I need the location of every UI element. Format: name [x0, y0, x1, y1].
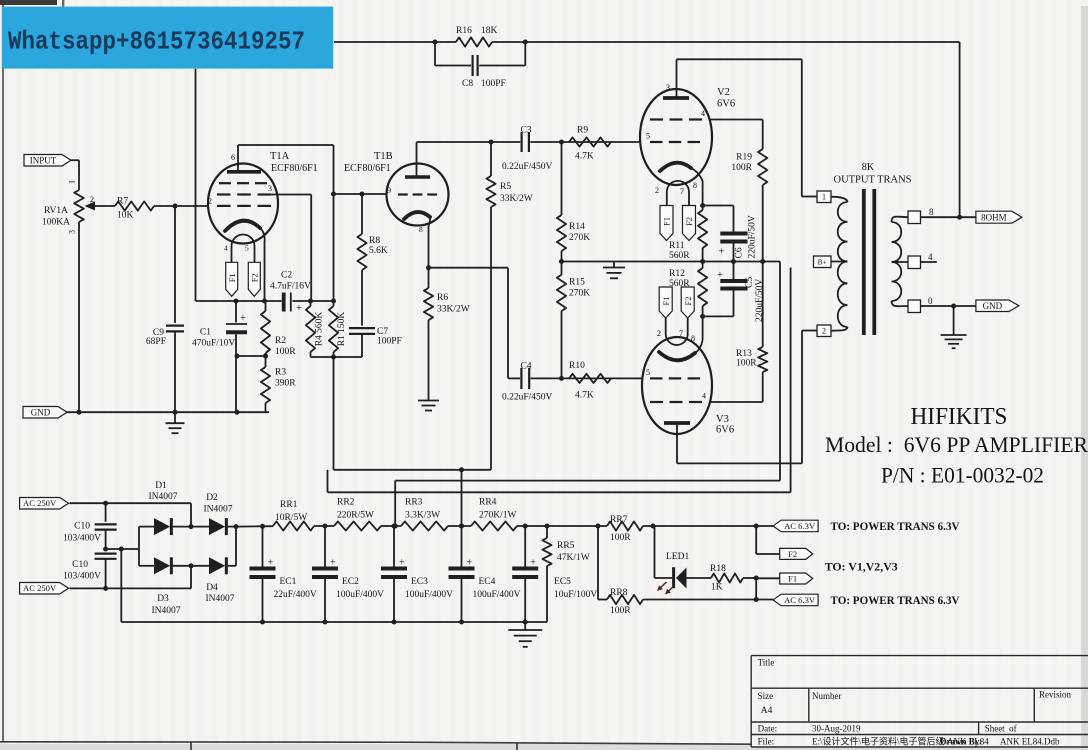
svg-text:8: 8 — [691, 334, 695, 343]
svg-text:0.22uF/450V: 0.22uF/450V — [502, 162, 553, 172]
svg-text:T1B: T1B — [374, 151, 393, 162]
svg-text:R19: R19 — [736, 153, 752, 163]
svg-text:C10: C10 — [74, 522, 90, 532]
svg-text:470uF/10V: 470uF/10V — [192, 339, 235, 349]
svg-text:Title: Title — [758, 658, 775, 668]
svg-text:3: 3 — [268, 184, 272, 193]
svg-text:9: 9 — [387, 186, 391, 195]
svg-text:4: 4 — [224, 244, 228, 253]
svg-text:270K/1W: 270K/1W — [479, 511, 517, 521]
svg-text:8OHM: 8OHM — [981, 212, 1007, 222]
svg-text:F1: F1 — [662, 217, 672, 226]
svg-text:R18: R18 — [710, 564, 726, 574]
svg-text:560R: 560R — [669, 251, 690, 261]
svg-text:File:: File: — [758, 737, 775, 747]
svg-text:100R: 100R — [610, 533, 631, 543]
svg-text:C1: C1 — [200, 328, 211, 338]
svg-text:8: 8 — [929, 207, 934, 217]
svg-text:100R: 100R — [736, 359, 757, 369]
svg-text:47K/1W: 47K/1W — [557, 553, 590, 563]
svg-text:0.22uF/450V: 0.22uF/450V — [502, 393, 553, 403]
svg-text:100PF: 100PF — [481, 79, 506, 89]
svg-text:R16: R16 — [456, 26, 472, 36]
svg-text:RR8: RR8 — [610, 588, 628, 598]
svg-text:22uF/400V: 22uF/400V — [274, 590, 317, 600]
svg-text:5: 5 — [646, 368, 650, 377]
svg-text:100R: 100R — [610, 606, 631, 616]
svg-text:D4: D4 — [206, 583, 218, 593]
svg-text:RR1: RR1 — [280, 500, 298, 510]
svg-text:EC1: EC1 — [280, 577, 297, 587]
svg-text:+: + — [240, 313, 246, 324]
svg-text:R2: R2 — [275, 336, 286, 346]
svg-text:3: 3 — [666, 83, 670, 92]
svg-text:6V6: 6V6 — [716, 425, 734, 436]
svg-text:C8: C8 — [462, 79, 473, 89]
svg-text:A4: A4 — [761, 706, 773, 716]
svg-text:100PF: 100PF — [377, 337, 402, 347]
svg-text:TO: POWER TRANS 6.3V: TO: POWER TRANS 6.3V — [831, 521, 961, 533]
svg-text:2: 2 — [657, 329, 661, 338]
svg-text:68PF: 68PF — [146, 337, 166, 347]
svg-text:EC4: EC4 — [479, 577, 496, 587]
svg-text:+: + — [399, 558, 405, 569]
svg-text:R15: R15 — [569, 278, 585, 288]
svg-text:Drawn By:: Drawn By: — [940, 737, 982, 747]
svg-text:4: 4 — [702, 392, 706, 401]
svg-text:10R/5W: 10R/5W — [275, 513, 307, 523]
svg-text:F2: F2 — [684, 217, 694, 226]
svg-text:LED1: LED1 — [666, 552, 689, 562]
svg-text:5: 5 — [646, 132, 650, 141]
svg-text:100uF/400V: 100uF/400V — [336, 590, 384, 600]
svg-text:ECF80/6F1: ECF80/6F1 — [271, 163, 318, 174]
svg-text:+: + — [296, 303, 302, 314]
svg-text:3.3K/3W: 3.3K/3W — [405, 511, 440, 521]
svg-text:TO: V1,V2,V3: TO: V1,V2,V3 — [825, 560, 898, 574]
svg-text:ECF80/6F1: ECF80/6F1 — [344, 163, 391, 174]
svg-text:2: 2 — [208, 197, 212, 206]
svg-text:F2: F2 — [249, 273, 259, 282]
svg-text:+: + — [719, 247, 725, 258]
svg-text:IN4007: IN4007 — [203, 505, 232, 515]
svg-text:F1: F1 — [788, 573, 797, 583]
svg-text:Number: Number — [812, 691, 842, 701]
svg-text:5: 5 — [245, 244, 249, 253]
svg-text:TO: POWER TRANS 6.3V: TO: POWER TRANS 6.3V — [831, 595, 961, 607]
svg-text:4.7K: 4.7K — [575, 391, 594, 401]
svg-text:IN4007: IN4007 — [151, 606, 180, 616]
svg-text:C2: C2 — [281, 271, 292, 281]
svg-text:EC5: EC5 — [554, 577, 571, 587]
svg-text:390R: 390R — [275, 379, 296, 389]
svg-text:R11: R11 — [669, 241, 685, 251]
svg-text:R12: R12 — [669, 269, 685, 279]
svg-text:3: 3 — [68, 230, 77, 234]
svg-text:4: 4 — [701, 109, 705, 118]
svg-text:T1A: T1A — [270, 151, 290, 162]
svg-text:R9: R9 — [577, 126, 588, 136]
svg-text:R8: R8 — [369, 236, 380, 246]
svg-text:10uF/100V: 10uF/100V — [554, 590, 597, 600]
svg-text:R1 150K: R1 150K — [337, 312, 347, 347]
svg-text:1K: 1K — [711, 583, 723, 593]
svg-text:RR4: RR4 — [479, 498, 497, 508]
svg-text:AC 250V: AC 250V — [23, 498, 57, 508]
svg-text:F1: F1 — [227, 273, 237, 282]
svg-text:D2: D2 — [206, 493, 218, 503]
svg-text:4.7K: 4.7K — [575, 152, 594, 162]
svg-text:103/400V: 103/400V — [63, 534, 101, 544]
svg-text:V2: V2 — [717, 87, 730, 98]
svg-text:7: 7 — [679, 329, 683, 338]
svg-text:F2: F2 — [683, 297, 693, 306]
svg-text:GND: GND — [983, 301, 1003, 311]
svg-text:C7: C7 — [377, 327, 388, 337]
svg-text:C10: C10 — [72, 560, 88, 570]
svg-text:270K: 270K — [569, 233, 590, 243]
svg-text:EC3: EC3 — [411, 577, 428, 587]
svg-text:RR5: RR5 — [557, 541, 575, 551]
svg-text:220uF/50V: 220uF/50V — [748, 215, 758, 258]
svg-text:AC 6.3V: AC 6.3V — [784, 595, 816, 605]
svg-text:8: 8 — [693, 181, 697, 190]
svg-text:R3: R3 — [275, 368, 286, 378]
svg-text:100uF/400V: 100uF/400V — [473, 590, 521, 600]
svg-text:ANK EL84.Ddb: ANK EL84.Ddb — [1000, 737, 1060, 747]
svg-text:6V6: 6V6 — [717, 99, 735, 110]
svg-text:4.7uF/16V: 4.7uF/16V — [270, 282, 311, 292]
svg-text:7: 7 — [680, 187, 684, 196]
svg-text:Model : 6V6 PP AMPLIFIER: Model : 6V6 PP AMPLIFIER — [825, 432, 1088, 457]
svg-text:2: 2 — [90, 195, 94, 204]
svg-text:R13: R13 — [736, 349, 752, 359]
svg-text:8: 8 — [419, 225, 423, 234]
svg-text:10K: 10K — [117, 211, 134, 221]
svg-text:100uF/400V: 100uF/400V — [405, 590, 453, 600]
svg-text:IN4007: IN4007 — [205, 594, 234, 604]
svg-text:103/400V: 103/400V — [63, 572, 101, 582]
svg-text:100R: 100R — [275, 347, 296, 357]
svg-text:2: 2 — [822, 326, 826, 335]
svg-text:Size: Size — [758, 691, 774, 701]
svg-text:C6: C6 — [735, 247, 745, 258]
svg-text:D1: D1 — [155, 481, 167, 491]
svg-text:GND: GND — [31, 407, 51, 417]
svg-text:270K: 270K — [569, 289, 590, 299]
svg-text:RR7: RR7 — [610, 515, 628, 525]
svg-text:C4: C4 — [520, 362, 531, 372]
svg-text:EC2: EC2 — [342, 577, 359, 587]
svg-text:INPUT: INPUT — [30, 155, 57, 165]
svg-text:HIFIKITS: HIFIKITS — [911, 404, 1008, 430]
svg-text:5.6K: 5.6K — [369, 246, 388, 256]
svg-text:+: + — [717, 270, 723, 281]
svg-text:100R: 100R — [731, 163, 752, 173]
svg-text:+: + — [467, 558, 473, 569]
svg-text:AC 6.3V: AC 6.3V — [784, 521, 816, 531]
svg-text:+: + — [330, 558, 336, 569]
svg-text:Date:: Date: — [758, 724, 778, 734]
svg-text:100KA: 100KA — [42, 218, 70, 228]
svg-text:R5: R5 — [500, 182, 511, 192]
svg-text:B+: B+ — [818, 257, 827, 266]
svg-text:Whatsapp+8615736419257: Whatsapp+8615736419257 — [8, 27, 305, 57]
svg-text:RR2: RR2 — [337, 498, 355, 508]
svg-text:Sheet of: Sheet of — [985, 724, 1017, 734]
svg-text:18K: 18K — [481, 26, 498, 36]
svg-text:RR3: RR3 — [405, 498, 423, 508]
svg-text:R7: R7 — [117, 197, 128, 207]
svg-text:220R/5W: 220R/5W — [337, 511, 374, 521]
svg-text:R6: R6 — [437, 293, 448, 303]
svg-text:D3: D3 — [157, 594, 169, 604]
svg-text:+: + — [530, 558, 536, 569]
svg-text:8K: 8K — [862, 162, 875, 173]
svg-text:+: + — [268, 558, 274, 569]
svg-text:R14: R14 — [569, 222, 585, 232]
svg-text:F1: F1 — [661, 297, 671, 306]
svg-text:C5: C5 — [745, 277, 755, 288]
svg-text:R4 560K: R4 560K — [315, 312, 325, 347]
svg-text:0: 0 — [928, 296, 933, 306]
svg-text:33K/2W: 33K/2W — [437, 305, 470, 315]
svg-text:Revision: Revision — [1039, 690, 1072, 700]
svg-text:1: 1 — [822, 192, 826, 201]
svg-text:OUTPUT TRANS: OUTPUT TRANS — [834, 175, 912, 186]
svg-text:F2: F2 — [788, 549, 797, 559]
svg-text:1: 1 — [68, 180, 77, 184]
svg-text:AC 250V: AC 250V — [23, 583, 57, 593]
svg-text:30-Aug-2019: 30-Aug-2019 — [812, 724, 861, 734]
svg-text:33K/2W: 33K/2W — [500, 194, 533, 204]
svg-text:V3: V3 — [716, 414, 729, 425]
svg-text:P/N : E01-0032-02: P/N : E01-0032-02 — [881, 463, 1044, 488]
svg-text:R10: R10 — [569, 361, 585, 371]
svg-text:C3: C3 — [520, 126, 531, 136]
svg-text:4: 4 — [928, 252, 933, 262]
svg-text:2: 2 — [655, 186, 659, 195]
svg-text:6: 6 — [231, 153, 235, 162]
svg-text:IN4007: IN4007 — [148, 492, 177, 502]
svg-text:RV1A: RV1A — [44, 206, 68, 216]
